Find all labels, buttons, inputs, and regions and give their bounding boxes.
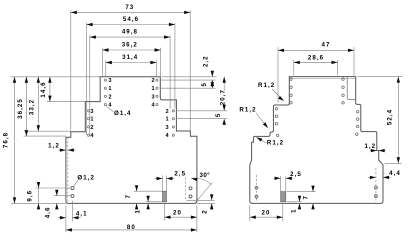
svg-text:76,8: 76,8 [2,132,9,148]
svg-text:2: 2 [152,78,156,84]
right part inner recess contour [347,77,355,100]
svg-text:Ø1,2: Ø1,2 [77,174,95,181]
chamfer 30 degrees bottom right [187,199,215,201]
mounting hole right lower 1 [189,187,192,190]
pin group lower-left circles [88,110,90,112]
pin group upper-left circles [104,79,106,81]
right part top inner edge line [290,78,355,80]
svg-text:7: 7 [125,194,132,198]
dim 5 upper [211,80,213,88]
svg-text:30°: 30° [200,172,211,179]
svg-text:2: 2 [201,209,208,213]
dim 73 [71,11,190,13]
svg-text:49,8: 49,8 [122,29,138,36]
dim 36,25 [25,77,27,136]
dim 80 bottom [66,229,197,231]
svg-text:4,1: 4,1 [76,211,88,218]
dim 54,6 [87,24,175,26]
svg-text:9,6: 9,6 [27,190,34,202]
slot left figure [163,191,167,202]
svg-text:20: 20 [262,210,271,217]
svg-text:3: 3 [90,109,94,115]
label diameter 1,2 with leader [73,180,78,187]
right part lower-left holes [256,175,258,201]
dim 7 right slot [287,191,316,193]
svg-text:1: 1 [166,117,170,123]
dim 1 right slot [287,201,302,203]
extension lines left stack [11,76,101,78]
hidden line near bottom right [185,178,187,202]
dim 5 lower [223,119,225,126]
svg-text:3: 3 [166,125,170,131]
svg-text:Ø1,4: Ø1,4 [114,110,132,117]
svg-text:5: 5 [215,113,222,117]
hidden edge dashed line left foot [67,137,69,202]
svg-text:36,25: 36,25 [17,98,24,119]
dim 20,7 [223,77,225,91]
svg-text:14,6: 14,6 [40,81,47,97]
dim 2,2 [211,71,213,77]
svg-text:54,6: 54,6 [123,16,139,23]
mounting hole left lower 1 [71,187,74,190]
svg-text:31,4: 31,4 [122,54,138,61]
svg-text:2: 2 [108,94,112,100]
dim 2,5 slot width [162,176,164,192]
pin group upper-right circles [156,79,158,81]
extension lines bottom left [36,187,71,189]
dim 4,4 [368,176,376,178]
svg-text:1,2: 1,2 [48,143,60,150]
dim 20 bottom [165,216,197,218]
extension lines right side of left part [162,76,217,78]
svg-text:2: 2 [166,109,170,115]
right part lower-right holes [375,168,377,201]
dim 33,2 [37,77,39,131]
svg-text:R1,2: R1,2 [258,82,275,89]
extension lines top stack [70,10,72,130]
dim 28,6 [293,60,295,76]
svg-text:3: 3 [108,78,112,84]
dim 9,6 [38,188,40,203]
dim 14,6 [49,77,51,102]
svg-text:52,4: 52,4 [387,109,394,125]
dim 52,4 [358,76,403,78]
dim 31,4 [106,62,157,64]
mounting hole left lower 2 [71,194,74,197]
svg-text:1: 1 [152,86,156,92]
svg-text:4: 4 [152,103,156,109]
dim 1 slot [146,201,163,203]
svg-text:33,2: 33,2 [29,99,36,115]
svg-text:1,2: 1,2 [364,143,376,150]
dim 36,2 [103,49,161,51]
svg-text:7: 7 [302,195,309,199]
svg-text:2,2: 2,2 [202,55,209,67]
svg-text:4,6: 4,6 [45,207,52,219]
svg-text:4,4: 4,4 [389,170,401,177]
svg-text:1: 1 [134,209,141,213]
svg-text:73: 73 [125,4,134,11]
mounting hole right lower 2 [189,195,192,198]
svg-text:28,6: 28,6 [308,54,324,61]
svg-text:20: 20 [173,210,182,217]
svg-text:47: 47 [322,42,331,49]
svg-text:2,5: 2,5 [290,171,302,178]
dim 47 [277,47,279,103]
label diameter 1,4 with leader [107,106,114,111]
svg-text:1: 1 [90,117,94,123]
svg-text:1: 1 [108,86,112,92]
right part hole columns [290,78,293,81]
dim 4,1 [58,217,66,219]
svg-text:36,2: 36,2 [122,42,138,49]
left part outline [66,77,197,204]
dim 7 slot [134,190,163,192]
right part slot [281,192,286,202]
svg-text:20,7: 20,7 [219,89,226,105]
svg-text:R1,2: R1,2 [267,140,284,147]
pin group lower-right circles [172,110,174,112]
dim 49,8 [90,36,170,38]
svg-text:2,5: 2,5 [174,170,186,177]
svg-text:2: 2 [90,125,94,131]
svg-text:4: 4 [90,133,94,139]
dim 20 right figure [249,206,251,222]
dim 4,6 [56,190,58,196]
svg-text:R1,2: R1,2 [239,107,256,114]
svg-text:4: 4 [108,103,112,109]
svg-text:1: 1 [290,208,297,212]
svg-text:3: 3 [152,94,156,100]
dim 2 bottom right [211,194,213,201]
dim 76,8 [14,77,16,204]
right part outline [250,77,383,204]
svg-text:5: 5 [201,82,208,86]
svg-text:80: 80 [127,224,136,231]
dim 2,5 right slot [280,176,282,192]
svg-text:4: 4 [166,133,170,139]
